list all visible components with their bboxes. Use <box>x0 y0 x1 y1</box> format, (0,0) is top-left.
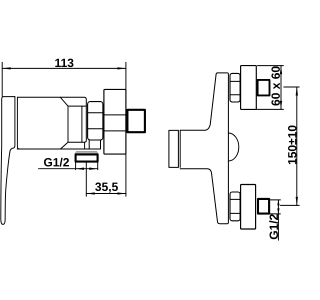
dimension 60x60 arrow bottom <box>280 101 282 110</box>
bottom union nut front view <box>230 192 240 221</box>
dimension 150±10 arrow top <box>296 87 298 96</box>
wall escutcheon side view <box>104 89 126 154</box>
body bottom edge <box>17 148 100 150</box>
bottom wall escutcheon <box>241 185 256 230</box>
dimension 35,5 line <box>86 193 126 195</box>
body internal vertical neck edge <box>81 106 83 142</box>
dimension 35,5 extension line right (wall face) <box>125 154 127 196</box>
bottom nut face line lower <box>230 212 240 214</box>
dimension 150±10 arrow bottom <box>296 197 298 206</box>
top wall escutcheon 60x60 <box>241 66 257 110</box>
dimension 60x60 extension top <box>258 65 284 67</box>
cap joint double line <box>179 130 181 167</box>
shower outlet stub G1/2 <box>76 154 98 161</box>
body lower right corner edge <box>84 142 86 149</box>
dimension 150±10 extension bottom <box>280 204 299 206</box>
dimension 113 arrow right <box>117 67 126 69</box>
union nut side view <box>88 102 103 140</box>
dimension text 35,5 <box>95 183 118 193</box>
body shoulder top line <box>68 105 86 107</box>
dimension 35,5 arrow right <box>117 192 126 194</box>
dimension 113 extension line left <box>1 62 3 96</box>
dimension 150±10 line <box>296 87 298 205</box>
nut neck ring <box>89 140 100 149</box>
dimension 35,5 arrow left <box>86 192 95 194</box>
nut face line lower <box>88 128 103 130</box>
body chamfer top slant <box>60 97 68 106</box>
escutcheon inner line lower <box>104 130 126 132</box>
lever handle paddle and blade <box>1 97 15 225</box>
dimension 35,5 extension line left (outlet axis) <box>85 162 87 196</box>
dimension G1/2 arrow down <box>277 208 279 214</box>
dimension text 150±10 <box>288 125 297 164</box>
label G1/2 underline right view <box>277 200 279 240</box>
label G1/2 underline and dimension line <box>39 168 98 170</box>
dimension G1/2 extension top <box>269 199 280 201</box>
escutcheon inner line upper <box>104 114 126 116</box>
dimension 60x60 arrow top <box>280 66 282 75</box>
bottom nut face line upper <box>230 198 240 200</box>
top wall stub <box>258 80 270 96</box>
body outline <box>17 97 86 149</box>
outlet width arrow left <box>76 168 85 170</box>
cartridge cap <box>169 130 179 167</box>
dimension 113 arrow left <box>2 67 11 69</box>
dimension 113 line <box>2 67 126 69</box>
back boss bulge <box>228 133 238 161</box>
label text G1/2 right view <box>269 214 278 239</box>
top union nut front view <box>230 73 240 102</box>
dimension 60x60 extension bottom <box>257 108 284 110</box>
outlet width extension line left <box>75 162 77 169</box>
outlet flange (grey) <box>75 151 98 154</box>
body and riser outline <box>180 73 228 224</box>
dimension text 60 x 60 <box>271 66 280 105</box>
label G1/2 left view <box>44 158 69 167</box>
top nut face line lower <box>230 94 240 96</box>
nut face line upper <box>88 112 103 114</box>
dimension 113 extension line right <box>125 62 127 89</box>
body internal vertical chamfer edge <box>67 106 69 142</box>
top nut face line upper <box>230 80 240 82</box>
dimension G1/2 extension bottom <box>269 213 280 215</box>
dimension 60x60 line <box>280 66 282 110</box>
wall connection stub G1/2 <box>127 110 144 132</box>
bottom wall stub G1/2 <box>258 199 269 214</box>
outlet width extension line right <box>97 162 99 169</box>
outlet width arrow right <box>89 168 98 170</box>
body joint line <box>17 97 19 149</box>
dimension 150±10 extension top <box>284 86 299 88</box>
dimension text 113 <box>55 59 73 68</box>
dimension G1/2 arrow up <box>277 200 279 206</box>
lever paddle right joint edge <box>14 97 15 148</box>
